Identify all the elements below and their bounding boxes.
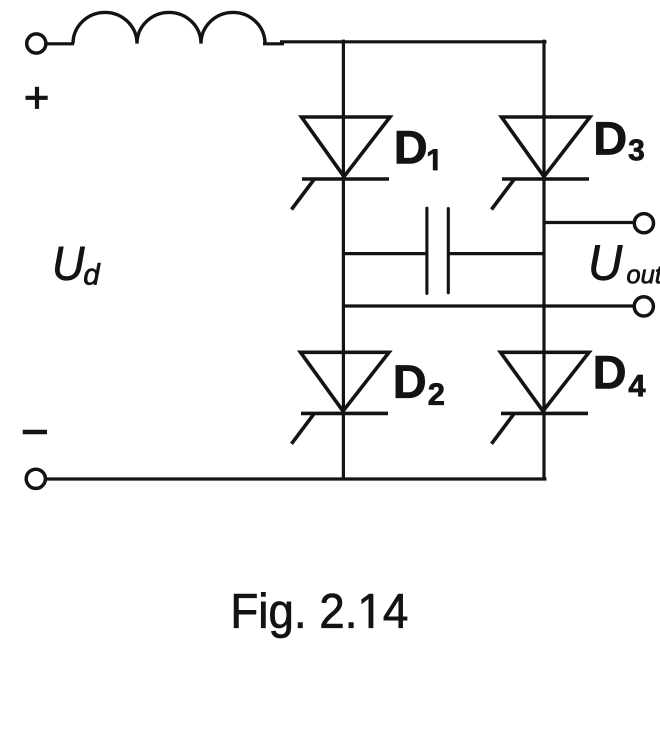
thyristor D3 — [492, 117, 591, 210]
wire right vertical branch — [542, 40, 545, 481]
terminal output lower — [634, 297, 653, 316]
wire inductor stub — [263, 42, 284, 45]
label D3 — [596, 122, 625, 154]
capacitor C1 plates — [427, 208, 448, 293]
wire bottom bus — [46, 477, 546, 480]
plus sign — [26, 87, 48, 109]
label Ud — [55, 247, 84, 280]
label D4 — [596, 356, 625, 388]
terminal output upper — [634, 214, 653, 233]
capacitor C1 right wire — [449, 252, 544, 255]
thyristor D1 — [292, 117, 391, 210]
thyristor D2 — [292, 352, 390, 444]
label D2 — [396, 366, 425, 398]
inductor L1 — [73, 12, 265, 43]
minus sign — [23, 430, 47, 434]
wire upper output — [544, 221, 634, 224]
wire lower output — [343, 304, 634, 307]
terminal bottom-left — [26, 469, 45, 488]
wire left vertical branch — [342, 40, 345, 481]
label Uout — [592, 245, 623, 280]
caption Fig. 2.14 — [234, 592, 407, 638]
terminal top-left — [27, 34, 46, 53]
thyristor D4 — [492, 352, 590, 444]
wire top bus — [280, 40, 547, 43]
wire terminal to inductor — [47, 42, 74, 45]
capacitor C1 left wire — [343, 252, 426, 255]
label D1 — [397, 131, 426, 163]
